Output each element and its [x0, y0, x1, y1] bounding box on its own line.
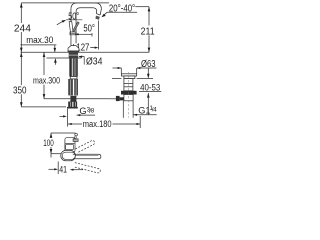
node 41 dimension [57, 162, 59, 175]
wire basin line right [137, 78, 153, 80]
waste flange [121, 74, 136, 76]
svg-text:G: G [79, 106, 86, 116]
node base plate top view [61, 150, 76, 160]
node 211 dimension line [148, 7, 150, 26]
spout outer contour [71, 3, 101, 46]
node lever stub top view [73, 139, 78, 142]
node shank connector [70, 77, 77, 79]
wire deck top line [21, 51, 150, 53]
node waste lower body [124, 95, 133, 101]
wire up arrow below deck at max300 line [43, 52, 46, 57]
wire lever hook [74, 136, 77, 139]
wire spout end cut [96, 14, 100, 15]
wire deck bottom line [47, 57, 82, 59]
node lever pivot cap [70, 32, 76, 35]
wire max30 drop arrow [54, 45, 56, 52]
wire small arrow left fitting [60, 115, 66, 117]
svg-text:max.180: max.180 [83, 119, 112, 129]
wire 100 dim bottom ref [51, 153, 61, 155]
node label 127 [75, 43, 91, 51]
node 40-53 dimension [147, 68, 149, 78]
supply hoses [68, 79, 73, 95]
wire dia63 extension lines [120, 68, 122, 74]
wire 100 dim top ref [51, 132, 76, 134]
node 100 dimension line [50, 133, 52, 138]
wire 211 reference line [135, 6, 149, 8]
wire spout tip extension line [98, 21, 100, 50]
wire up arrow below deck at 350 line [20, 52, 23, 57]
hose end fittings [68, 102, 72, 108]
wire 350 bottom reference line [21, 106, 66, 108]
svg-text:244: 244 [14, 23, 31, 34]
node 350 dimension line [20, 52, 22, 85]
node spout bar upper ghost [75, 140, 94, 152]
wire pop-up rod line [44, 98, 110, 100]
node max.180 dimension [68, 123, 72, 125]
node spout bar lower ghost [74, 163, 100, 173]
svg-text:41: 41 [59, 164, 67, 174]
svg-text:350: 350 [13, 85, 27, 96]
svg-text:Ø34: Ø34 [86, 57, 103, 68]
svg-text:4: 4 [153, 106, 157, 113]
wire up arrow to deck bottom [54, 58, 57, 63]
svg-text:8: 8 [91, 108, 95, 115]
wire pop-up linkage [110, 98, 117, 100]
spout inner contour [76, 8, 97, 46]
svg-text:max.30: max.30 [26, 35, 53, 45]
svg-text:20°-40°: 20°-40° [109, 4, 135, 15]
wire leader from lower 50 deg [77, 33, 92, 35]
wire leader arrow to spout tip [103, 12, 108, 16]
escutcheon base [68, 46, 79, 53]
node waste body [124, 79, 133, 91]
svg-text:max.300: max.300 [33, 75, 60, 85]
lever open position hatched [73, 22, 80, 32]
svg-text:50°: 50° [83, 24, 95, 35]
node waste locking nut [121, 91, 137, 95]
node body top view [65, 138, 75, 152]
lever closed position [69, 21, 73, 32]
wire leader arrow to 50 deg [57, 21, 64, 25]
svg-text:211: 211 [141, 26, 155, 37]
node mounting washer below deck [69, 53, 78, 58]
node max.300 dimension line [43, 52, 45, 75]
svg-text:100: 100 [43, 138, 54, 148]
node label diameter 34 [79, 56, 84, 58]
wire basin line left [112, 78, 121, 80]
node spout bar straight [73, 154, 101, 159]
node 244 dimension line [20, 3, 22, 23]
node rod joint [70, 96, 76, 102]
threaded shank [69, 58, 78, 77]
svg-text:50°: 50° [68, 11, 79, 22]
aerator tip [95, 16, 99, 20]
wire top reference line for 244 [21, 2, 109, 4]
node 127 dimension [73, 44, 75, 51]
waste tailpipe [122, 101, 124, 118]
